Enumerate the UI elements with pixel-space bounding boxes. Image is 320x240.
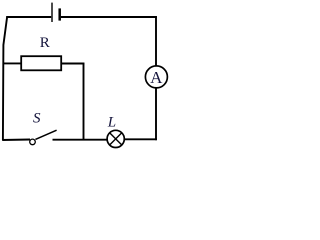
lamp L cross stroke 1 [110,133,122,145]
wire top-right (battery to top-right corner) [61,16,157,18]
svg-text:S: S [33,111,41,127]
battery cell: long plate (positive) [51,3,53,22]
wire left side (top-left corner down to bottom-left corner) [3,16,7,140]
wire resistor branch vertical (down to bottom wire junction) [83,63,85,141]
switch S blade (open) [35,130,56,139]
wire bottom-left (corner to switch pivot) [2,139,30,142]
wire right lower (ammeter down to bottom-right corner) [155,88,157,141]
wire bottom-right (lamp to bottom-right corner) [124,138,157,140]
svg-text:R: R [40,35,50,51]
ammeter A circle U1 [145,66,167,88]
resistor R (box) [21,56,61,70]
wire top-left (battery to top-left corner) [6,16,51,18]
wire right upper (top-right corner down to ammeter) [155,16,157,66]
svg-text:L: L [107,115,116,131]
wire resistor branch right stub [61,63,84,65]
svg-text:A: A [150,68,163,87]
switch S pivot circle [30,139,36,145]
wire bottom middle (switch to lamp, through junction node) [53,139,108,141]
battery cell: short plate (negative) [58,8,61,20]
lamp L circle [107,130,124,147]
lamp L cross stroke 2 [110,133,122,145]
wire resistor branch left stub [3,62,22,64]
